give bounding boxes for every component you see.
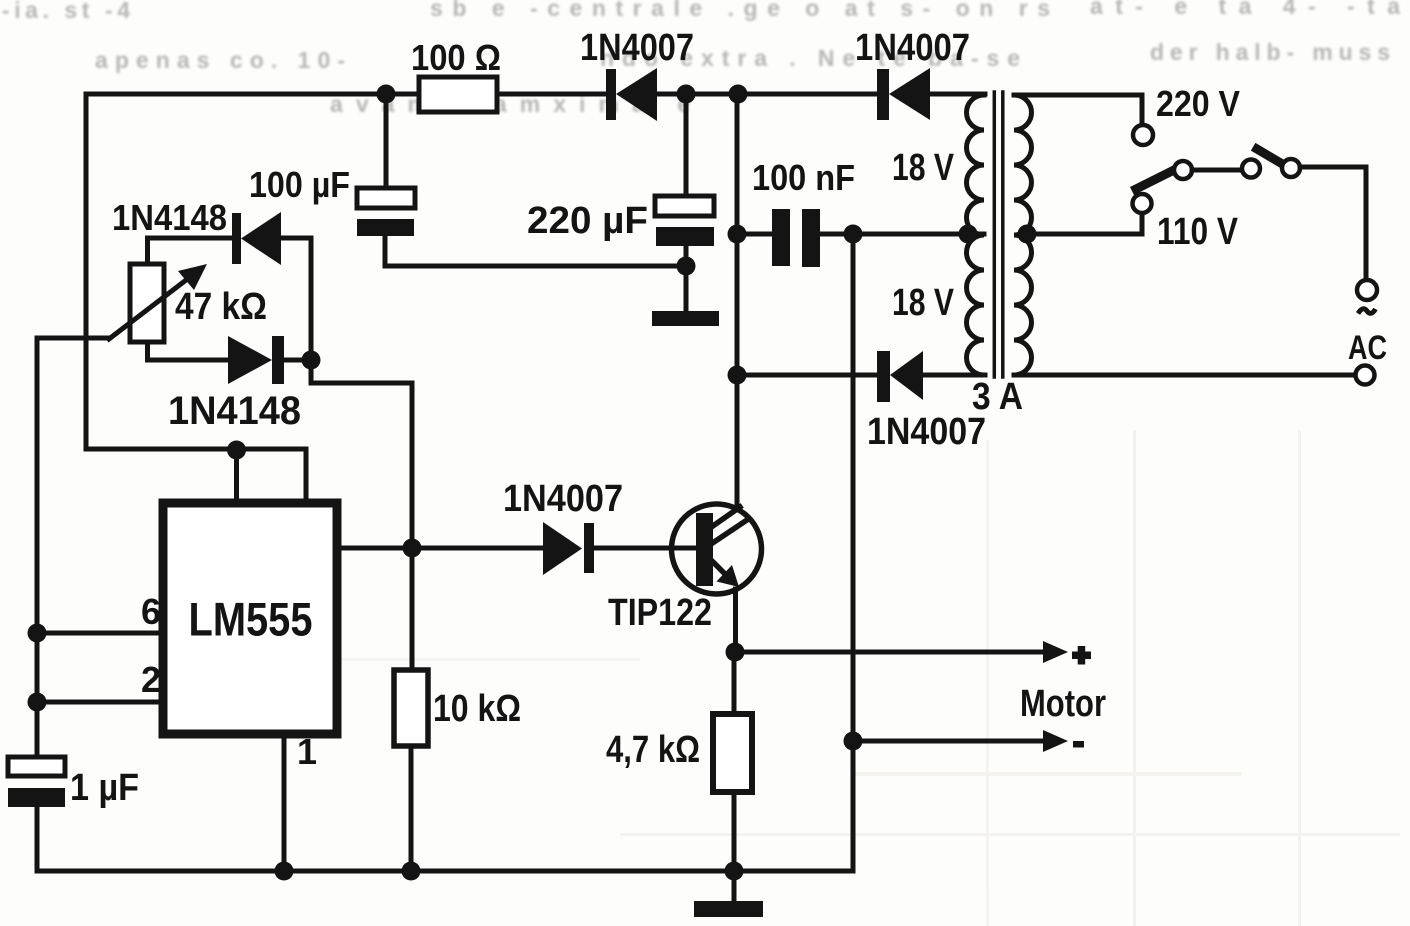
svg-text:1 µF: 1 µF (70, 767, 139, 809)
wire D1 to D2 (657, 92, 877, 97)
wire resistor to D1 (497, 92, 607, 97)
ground 220uF (652, 311, 719, 326)
wire D3 to transformer (923, 373, 985, 378)
wire node to discharge column (311, 360, 412, 670)
switch pole B (1242, 160, 1260, 178)
wire pin 2 (37, 700, 163, 705)
wire 10k bottom lead (409, 746, 414, 871)
node minus rail top (844, 225, 863, 244)
node 220uF bottom (677, 257, 696, 276)
switch blade selector (1136, 169, 1177, 190)
switch blade on-off (1257, 149, 1284, 165)
svg-text:1N4007: 1N4007 (503, 478, 623, 520)
node Vcc stub junction (227, 441, 246, 460)
svg-text:6: 6 (141, 591, 161, 632)
wire top rail and left rail to Vcc row (86, 94, 419, 503)
terminal AC top (1357, 280, 1377, 300)
resistor R4 4.7k (713, 714, 752, 792)
wire D4 right side (281, 238, 311, 360)
wire threshold rail (35, 338, 40, 757)
wire secondary bottom to AC (1014, 373, 1355, 378)
node transformer left tap (959, 225, 978, 244)
wire 220uF to gnd node (684, 246, 689, 311)
wire secondary tap to 110V terminal (1027, 214, 1142, 234)
wire 100nF lead left (737, 232, 772, 237)
svg-text:1: 1 (297, 731, 317, 772)
node pin2 (28, 693, 47, 712)
svg-text:Motor: Motor (1020, 683, 1106, 725)
transformer core (994, 92, 1003, 377)
node motor minus (844, 732, 863, 751)
terminal AC bottom (1356, 366, 1375, 385)
ground main (694, 901, 763, 917)
node secondary tap (1018, 225, 1037, 244)
svg-text:110 V: 110 V (1157, 211, 1239, 253)
transformer secondary winding (1014, 95, 1032, 375)
wire motor plus (735, 650, 1043, 655)
label plus (1072, 652, 1091, 660)
diode D4 1N4148 (232, 212, 281, 265)
capacitor 220uF (655, 196, 714, 216)
switch pole C (1282, 159, 1300, 177)
capacitor 100nF (772, 209, 820, 267)
svg-text:TIP122: TIP122 (608, 592, 712, 634)
svg-text:1N4148: 1N4148 (112, 197, 227, 238)
svg-text:18 V: 18 V (892, 282, 955, 324)
wire pot bottom to D5 (148, 358, 229, 363)
svg-text:1N4148: 1N4148 (168, 389, 301, 433)
node pin6 (28, 624, 47, 643)
node emitter junction (726, 643, 745, 662)
transformer T1 primary winding (967, 95, 985, 375)
svg-text:220 µF: 220 µF (527, 200, 648, 242)
svg-text:18 V: 18 V (892, 147, 955, 189)
svg-text:AC: AC (1348, 329, 1387, 367)
node R4 bottom (725, 862, 744, 881)
svg-text:100 µF: 100 µF (249, 164, 350, 205)
label tilde (1358, 309, 1376, 314)
wire 100uF bottom to 220uF bottom (385, 236, 686, 266)
potentiometer R2 47k wiper arrow (109, 277, 190, 339)
node diode pair (302, 351, 321, 370)
label minus (1073, 741, 1084, 748)
svg-text:1N4007: 1N4007 (867, 411, 986, 453)
wire emitter down (733, 589, 738, 652)
wire Vcc stub to pin 8 (234, 449, 239, 503)
terminal 110V (1133, 194, 1152, 213)
node 10k bottom (402, 862, 421, 881)
wire pot wiper (37, 336, 109, 341)
wire D5 to node (284, 358, 311, 363)
wire collector rail (735, 94, 740, 510)
svg-text:LM555: LM555 (189, 593, 313, 646)
faint scan streaks (240, 430, 1400, 926)
svg-text:100 nF: 100 nF (752, 157, 855, 198)
resistor R4 4.7k leads (732, 652, 737, 901)
transistor collector strokes (710, 507, 747, 542)
wire pin 6 (37, 631, 163, 636)
svg-text:10 kΩ: 10 kΩ (433, 688, 521, 730)
terminal 220V (1133, 125, 1153, 145)
wire pot top to D4 (148, 236, 233, 241)
diode D2 1N4007 (877, 68, 930, 120)
wire bottom diode branch (737, 373, 877, 378)
wire D2 to transformer (930, 92, 985, 97)
node bottom diode junction (728, 366, 747, 385)
transistor emitter (712, 561, 726, 575)
node 220uF top (677, 85, 696, 104)
diode D6 1N4007 (543, 522, 594, 575)
IC U1 LM555 (163, 503, 337, 734)
svg-text:at- e ta 4- -ta: at- e ta 4- -ta (1090, 0, 1400, 19)
switch pole A (1174, 161, 1192, 179)
svg-text:100 Ω: 100 Ω (411, 37, 501, 78)
wire pole C to AC top (1300, 167, 1366, 277)
wire 100nF lead right (820, 232, 984, 237)
resistor R3 10k (394, 670, 428, 746)
svg-text:4,7 kΩ: 4,7 kΩ (606, 729, 700, 771)
wire secondary top to 220V terminal (1014, 95, 1142, 124)
svg-text:1N4007: 1N4007 (855, 27, 970, 69)
wire pin 1 (282, 734, 287, 871)
wire motor minus (853, 739, 1043, 744)
svg-text:47 kΩ: 47 kΩ (175, 286, 267, 328)
node 100uF top (377, 85, 396, 104)
wire pin 3 output (337, 546, 543, 551)
diode D5 1N4148 (228, 336, 284, 384)
wire pole A to pole B (1192, 168, 1242, 173)
resistor 100 ohm (419, 77, 497, 112)
node 100nF left (728, 225, 747, 244)
wire 100uF drop (384, 94, 389, 188)
diode D3 1N4007 (877, 351, 923, 402)
wire minus rail vertical (37, 234, 853, 871)
potentiometer R2 body (130, 264, 164, 342)
node output junction (403, 539, 422, 558)
wire pot stems (145, 238, 150, 360)
capacitor 100uF (357, 188, 415, 208)
wire D6 to TIP122 base (594, 546, 697, 551)
svg-text:1N4007: 1N4007 (580, 27, 694, 69)
capacitor C3 1uF (8, 757, 65, 776)
svg-text:2: 2 (141, 659, 161, 700)
diode D1 1N4007 (606, 68, 657, 121)
svg-text:220 V: 220 V (1156, 83, 1240, 124)
wire 220uF drop (684, 94, 689, 196)
node pin1 bottom (275, 862, 294, 881)
node collector rail top (729, 85, 748, 104)
transistor Q1 TIP122 (672, 504, 762, 594)
